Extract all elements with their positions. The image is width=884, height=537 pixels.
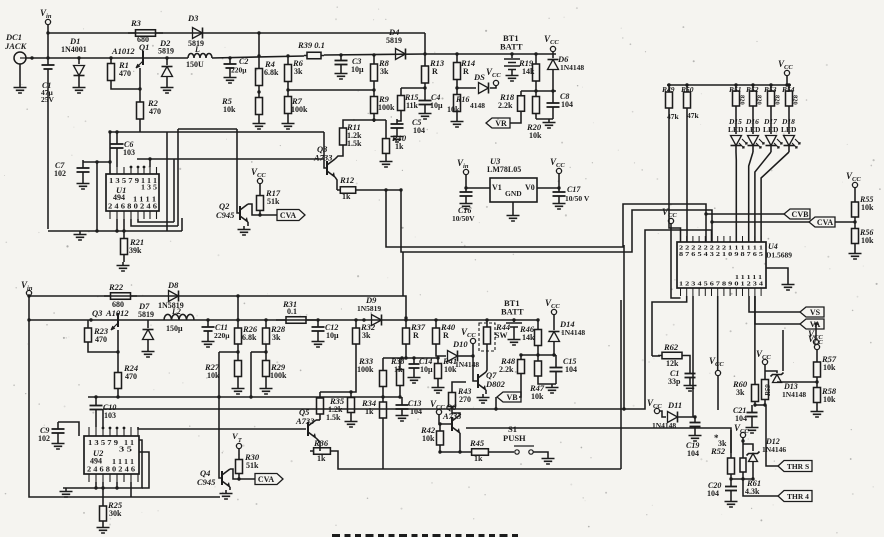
ground (C19) xyxy=(689,432,702,441)
resistor R29 100k xyxy=(265,352,267,385)
svg-text:1.5k: 1.5k xyxy=(326,413,341,422)
capacitor C9 102 xyxy=(58,422,79,436)
resistor R24 470 xyxy=(117,364,119,397)
node Vcc (R61/D12) xyxy=(740,432,745,437)
svg-text:10μ: 10μ xyxy=(326,331,339,340)
svg-text:R36: R36 xyxy=(313,438,329,448)
ground (C4) xyxy=(419,110,432,119)
wire D11 node to U4 pin xyxy=(692,296,694,417)
wire Q1 to R2 node xyxy=(139,68,141,89)
wire R12 to bus B1 (CVB line) xyxy=(359,189,401,191)
svg-text:47k: 47k xyxy=(687,111,700,120)
resistor R16 10k xyxy=(455,86,458,89)
node Vcc (R57) xyxy=(814,344,819,349)
resistor R25 30k xyxy=(102,482,104,503)
svg-text:103: 103 xyxy=(104,411,116,420)
svg-text:R59: R59 xyxy=(764,384,772,397)
svg-text:CVA: CVA xyxy=(817,218,834,227)
svg-text:BATT: BATT xyxy=(501,307,524,317)
wire from VA area down to D13 xyxy=(782,330,784,371)
inductor L1 150U xyxy=(188,54,212,59)
svg-text:220μ: 220μ xyxy=(214,331,230,340)
resistor R14 R xyxy=(455,52,458,55)
ground (R58) xyxy=(811,408,824,417)
svg-text:104: 104 xyxy=(707,489,719,498)
svg-text:2 2 2 2 2 2 2 2 1 1 1 1 1 1: 2 2 2 2 2 2 2 2 1 1 1 1 1 1 xyxy=(679,246,763,252)
resistor R37 R xyxy=(404,318,407,321)
node Vcc (U3 output) xyxy=(556,168,561,173)
svg-text:VR: VR xyxy=(495,119,507,128)
ground (C8/R20) xyxy=(536,118,553,120)
resistor R27 10k xyxy=(237,352,239,385)
wire LED D18 to U4 xyxy=(761,152,789,242)
resistor R32 3k xyxy=(354,318,357,321)
wire CVB branch xyxy=(706,213,784,215)
svg-text:C945: C945 xyxy=(197,477,216,487)
svg-text:V0: V0 xyxy=(525,183,535,192)
node Vcc (D10) xyxy=(470,338,475,343)
svg-text:5819: 5819 xyxy=(386,36,402,45)
svg-text:494: 494 xyxy=(90,457,102,466)
svg-text:R51: R51 xyxy=(728,85,742,94)
capacitor C17 10/50V xyxy=(558,188,560,200)
resistor R50 47k xyxy=(685,83,688,86)
resistor R31 0.1 xyxy=(276,319,316,321)
ground (Q2 emitter) xyxy=(247,222,249,226)
svg-text:VB: VB xyxy=(506,393,518,402)
ground (D2) xyxy=(161,84,174,93)
resistor R52 820 xyxy=(751,83,754,86)
svg-text:10μ: 10μ xyxy=(351,65,364,74)
resistor R15 11k xyxy=(401,87,425,89)
ground (R16) xyxy=(451,118,464,127)
svg-text:PUSH: PUSH xyxy=(503,433,526,443)
ground (Q7 emitter) xyxy=(485,390,487,394)
ground (R29) xyxy=(260,385,273,394)
svg-text:1k: 1k xyxy=(395,142,404,151)
resistor R35 1.2k/1.5k xyxy=(320,391,351,393)
wire top rail Vin to corner x425 xyxy=(48,32,425,34)
resistor R18 2.2k xyxy=(520,91,522,116)
resistor R26 6.8k xyxy=(236,318,239,321)
wire bottom rail2 xyxy=(29,319,538,321)
wire U4 to VS flag xyxy=(749,296,800,312)
U2 pin stubs bottom xyxy=(88,474,90,482)
resistor R23 470 xyxy=(87,320,89,350)
IC U1 494 xyxy=(106,174,159,211)
resistor R48 2.2k xyxy=(520,355,522,378)
svg-text:12k: 12k xyxy=(666,359,679,368)
wire bottom railA xyxy=(29,296,406,318)
svg-text:820: 820 xyxy=(739,95,746,105)
svg-text:104: 104 xyxy=(687,449,699,458)
diode D14 1N4148 with Vcc xyxy=(551,309,556,314)
wire R6/R7 tap to R8/R9 tap xyxy=(288,89,374,91)
ground (C3) xyxy=(335,70,348,79)
svg-text:10k: 10k xyxy=(861,203,874,212)
svg-text:10k: 10k xyxy=(223,105,236,114)
capacitor C16 10/50V xyxy=(465,188,467,200)
svg-text:D10: D10 xyxy=(452,339,468,349)
wire LED D15 to U4 xyxy=(735,152,737,242)
svg-text:150U: 150U xyxy=(186,60,204,69)
resistor R61 4.3k xyxy=(742,451,744,479)
svg-text:1 1 1 1 1: 1 1 1 1 1 xyxy=(735,275,762,281)
resistor R46 14k xyxy=(536,318,539,321)
flag CVA (right) xyxy=(809,217,835,227)
capacitor C7 102 xyxy=(83,161,110,163)
ground (C1) xyxy=(684,382,697,391)
resistor R57 10k xyxy=(816,350,818,358)
svg-text:10k: 10k xyxy=(447,105,460,114)
node Vcc (U4 left) xyxy=(668,218,673,223)
svg-text:10/50V: 10/50V xyxy=(452,214,475,223)
svg-text:4148: 4148 xyxy=(470,101,485,110)
U1 pin stubs bottom xyxy=(109,211,111,219)
wire ground bus under U1 xyxy=(48,230,182,232)
svg-text:R53: R53 xyxy=(763,85,777,94)
resistor R9 100k xyxy=(373,90,375,120)
svg-text:1N4148: 1N4148 xyxy=(561,328,585,337)
svg-text:R62: R62 xyxy=(663,342,679,352)
ground (C13) xyxy=(396,412,409,421)
wire U2 to right buses xyxy=(102,409,104,427)
ground (BT1 bottom) xyxy=(508,336,521,345)
svg-text:A1012: A1012 xyxy=(111,46,135,56)
svg-text:R3: R3 xyxy=(130,18,142,28)
resistor R11 1.2k/1.5k xyxy=(335,151,343,159)
resistor R28 3k xyxy=(264,318,267,321)
svg-text:R: R xyxy=(443,331,449,340)
svg-text:1 3 5: 1 3 5 xyxy=(141,184,158,192)
resistor R30 51k xyxy=(238,449,240,455)
wire R35 to Q5 collector xyxy=(316,419,320,421)
node Vcc (below VA) xyxy=(813,339,818,344)
svg-text:THR S: THR S xyxy=(787,462,809,471)
wire railA to rail2 drop xyxy=(237,296,239,320)
capacitor C20 104 xyxy=(730,479,732,498)
svg-text:10/50 V: 10/50 V xyxy=(565,194,590,203)
svg-text:102: 102 xyxy=(54,169,66,178)
ground (R27) xyxy=(232,385,245,394)
svg-text:R52: R52 xyxy=(710,446,726,456)
svg-text:3k: 3k xyxy=(362,331,371,340)
svg-text:R39 0.1: R39 0.1 xyxy=(297,40,325,50)
svg-text:V1: V1 xyxy=(492,183,502,192)
svg-text:1N4148: 1N4148 xyxy=(782,390,806,399)
svg-text:100k: 100k xyxy=(291,105,308,114)
resistor R35b (1.5k alt) xyxy=(350,392,352,418)
svg-text:4.3k: 4.3k xyxy=(745,487,760,496)
resistor R17 51k xyxy=(259,184,261,192)
wire U1 bottom pin wires xyxy=(116,219,118,231)
node Vin (top input terminal) xyxy=(45,19,50,24)
diode D12 1N4146 xyxy=(743,444,753,451)
wire CVA to R55/R56 junction xyxy=(835,221,855,223)
capacitor C15 104 xyxy=(555,355,557,384)
svg-text:39k: 39k xyxy=(129,246,142,255)
resistor R3 680 (top rail) xyxy=(128,32,163,34)
wire to THR 4 flag xyxy=(743,479,778,496)
svg-text:1N5819: 1N5819 xyxy=(357,304,381,313)
svg-text:103: 103 xyxy=(123,148,135,157)
node Vcc (R55) xyxy=(852,182,857,187)
ground (R35b) xyxy=(345,418,358,427)
ground (S1) xyxy=(533,452,548,455)
capacitor C13 104 xyxy=(401,397,403,402)
ground (R25) xyxy=(97,524,110,533)
ground (C2) xyxy=(224,74,237,83)
capacitor C2 220u xyxy=(228,56,231,59)
wire bus B2 (CVA line) xyxy=(401,190,712,252)
svg-text:104: 104 xyxy=(413,126,425,135)
svg-text:14k: 14k xyxy=(522,333,535,342)
wire LED D17 to U4 xyxy=(755,152,771,242)
caption (partially cropped) xyxy=(332,534,340,537)
wire R2 to Q3 base long run xyxy=(110,131,324,133)
ground (C17) xyxy=(553,200,566,209)
svg-text:10k: 10k xyxy=(422,434,435,443)
resistor R45 1k xyxy=(468,451,492,453)
svg-text:VS: VS xyxy=(810,308,821,317)
svg-text:1k: 1k xyxy=(394,365,403,374)
svg-text:10k: 10k xyxy=(529,131,542,140)
svg-text:CVA: CVA xyxy=(258,475,275,484)
svg-text:D11: D11 xyxy=(667,400,682,410)
svg-text:1 3 5 7 9: 1 3 5 7 9 xyxy=(88,439,119,447)
wire U1 pin1 up to R2 line xyxy=(109,132,111,174)
wire R19/R18/C8 node xyxy=(521,90,556,92)
svg-text:494: 494 xyxy=(113,193,125,202)
wire jack rail xyxy=(26,57,188,59)
svg-text:2.2k: 2.2k xyxy=(498,101,513,110)
svg-text:6.8k: 6.8k xyxy=(242,333,257,342)
resistor R42 10k xyxy=(438,422,441,425)
svg-text:470: 470 xyxy=(119,69,131,78)
svg-text:220μ: 220μ xyxy=(231,66,247,75)
svg-text:R22: R22 xyxy=(108,282,124,292)
wire Q3 to R24 xyxy=(117,330,119,364)
ground (R56) xyxy=(849,250,862,259)
wire R59 node to THR S xyxy=(766,405,778,466)
svg-text:150μ: 150μ xyxy=(166,324,183,333)
svg-text:1N4148: 1N4148 xyxy=(455,360,479,369)
resistor R7 100k xyxy=(287,90,289,120)
U2 pin stubs top xyxy=(88,427,90,436)
U4 pin stubs top xyxy=(680,236,682,242)
node Vcc (Q6) xyxy=(436,409,441,414)
wire U1 pin13 to y159 line xyxy=(149,159,151,167)
svg-text:10μ: 10μ xyxy=(420,365,433,374)
flag VA xyxy=(800,319,824,329)
svg-text:CVB: CVB xyxy=(792,210,810,219)
wire D10 to Q7 base xyxy=(473,356,478,381)
svg-text:10k: 10k xyxy=(531,392,544,401)
svg-text:L: L xyxy=(194,45,200,54)
wire R36 to bottom bus xyxy=(334,451,621,469)
ground (R41) xyxy=(432,384,445,393)
node Vcc (D11) xyxy=(654,408,659,413)
svg-text:820: 820 xyxy=(774,95,781,105)
wire U1 right-side verticals xyxy=(166,132,168,231)
svg-text:104: 104 xyxy=(565,365,577,374)
wire R62 feed from U4 xyxy=(652,296,687,356)
resistor R54 820 xyxy=(787,83,790,86)
wire Vin down left side xyxy=(29,296,220,497)
svg-text:3k: 3k xyxy=(736,388,745,397)
flag CVA (bottom) xyxy=(255,474,283,485)
svg-text:10k: 10k xyxy=(823,395,836,404)
wire Vin junction down to jack rail xyxy=(47,33,49,58)
resistor R33 100k xyxy=(382,358,384,360)
ground (C11) xyxy=(202,338,215,347)
svg-text:JACK: JACK xyxy=(4,41,28,51)
svg-text:104: 104 xyxy=(561,100,573,109)
svg-text:10k: 10k xyxy=(861,236,874,245)
flag THR S xyxy=(778,461,812,472)
resistor R1 470 xyxy=(109,56,112,59)
svg-text:1k: 1k xyxy=(342,192,351,201)
svg-text:D3: D3 xyxy=(187,13,199,23)
svg-text:R16: R16 xyxy=(455,95,469,104)
ground (C9) xyxy=(52,440,65,449)
capacitor C1 47u 25V xyxy=(47,58,49,76)
svg-text:1.5k: 1.5k xyxy=(347,139,362,148)
resistor R40 R xyxy=(434,318,437,321)
svg-text:CVA: CVA xyxy=(280,211,297,220)
svg-text:2 4 6 8 0 2 4 6: 2 4 6 8 0 2 4 6 xyxy=(87,466,136,474)
wire D13 to R57/R58 node xyxy=(777,381,817,383)
node Vcc (mid, U4 pin7) xyxy=(717,296,719,370)
svg-text:LM78L05: LM78L05 xyxy=(487,165,521,174)
node Vin (U3 input terminal) xyxy=(463,169,468,174)
resistor R44 SW (dashed option box) xyxy=(479,323,495,351)
wire jack rail L1 to R39 xyxy=(212,56,304,58)
flag VB xyxy=(497,392,521,402)
svg-text:R12: R12 xyxy=(339,175,355,185)
svg-text:5819: 5819 xyxy=(138,310,154,319)
resistor R36 1k xyxy=(316,438,320,451)
ground (R7) xyxy=(282,120,295,129)
resistor R62 12k xyxy=(652,355,660,357)
wire R9 bottom to R11/R10 xyxy=(373,120,375,122)
svg-text:D8: D8 xyxy=(167,280,179,290)
node Vcc (R59) xyxy=(762,359,767,364)
resistor R47 10k xyxy=(537,355,539,382)
wire U2 right-side loop xyxy=(139,452,149,488)
resistor R49 47k xyxy=(667,83,670,86)
flag VS xyxy=(800,307,824,317)
svg-text:51k: 51k xyxy=(267,197,280,206)
ground (U4 right) xyxy=(766,268,788,281)
svg-text:DS: DS xyxy=(473,72,485,82)
wire LED network rail xyxy=(667,84,791,86)
resistor R19 14k xyxy=(534,52,537,55)
resistor R8 3k xyxy=(372,53,375,56)
ground (C7) xyxy=(77,180,90,189)
wire R23 bottom to R24 node xyxy=(88,350,118,352)
wire R40 to D10 xyxy=(436,352,446,356)
resistor R58 10k xyxy=(816,382,818,408)
wire R49 to U4 xyxy=(669,115,681,242)
IC U4 D1.5689 xyxy=(677,242,766,288)
svg-text:11k: 11k xyxy=(406,101,419,110)
ground (D1) xyxy=(73,84,86,93)
svg-text:2 4 6 8 0 2 4 6: 2 4 6 8 0 2 4 6 xyxy=(108,203,158,211)
ground (C20) xyxy=(725,498,738,507)
ground (R21) xyxy=(117,262,130,271)
flag CVA (top) xyxy=(277,210,305,221)
resistor R21 39k xyxy=(123,219,125,231)
diode D13 1N4148 xyxy=(765,371,777,373)
resistor R13 R xyxy=(424,54,426,95)
node Vin (bottom input terminal) xyxy=(26,290,31,295)
wire R28/R29 tap xyxy=(251,351,266,353)
resistor R34 1k xyxy=(381,395,384,398)
flag CVB xyxy=(784,209,810,219)
capacitor C11 220u xyxy=(206,318,209,321)
ground (C21) xyxy=(746,424,759,433)
svg-text:820: 820 xyxy=(792,95,799,105)
ground (C5) xyxy=(391,133,404,142)
svg-text:C17: C17 xyxy=(567,185,581,194)
ground (D7) xyxy=(142,348,155,357)
wire Q4 collector to CVA flag xyxy=(230,469,255,479)
svg-text:A733: A733 xyxy=(313,153,333,163)
wire C7 node to ground bus xyxy=(96,162,98,231)
wire Q6 emitter to R45 xyxy=(459,433,461,452)
ground (U3 GND pin) xyxy=(512,202,514,212)
svg-text:102: 102 xyxy=(38,434,50,443)
ground (Q4 emitter) xyxy=(229,487,231,490)
capacitor C12 10u xyxy=(316,318,319,321)
svg-text:THR 4: THR 4 xyxy=(787,492,809,501)
svg-text:R49: R49 xyxy=(661,85,675,94)
svg-text:R50: R50 xyxy=(680,85,694,94)
svg-text:6.8k: 6.8k xyxy=(264,68,279,77)
wire Q2 collector to CVA xyxy=(248,204,277,215)
svg-text:1k: 1k xyxy=(317,454,326,463)
svg-text:10k: 10k xyxy=(823,363,836,372)
resistor R59 xyxy=(764,365,766,375)
svg-text:Q3: Q3 xyxy=(92,308,103,318)
resistor R41 10k xyxy=(436,356,439,359)
ground (R5) xyxy=(253,120,266,129)
resistor R12 1k xyxy=(335,177,337,190)
wire rail to R14/BT1 xyxy=(425,53,556,55)
U1 pin stubs top xyxy=(109,167,111,174)
wire node y355 xyxy=(521,354,556,356)
wire sense bus y397 xyxy=(88,396,400,398)
svg-text:1N4146: 1N4146 xyxy=(762,445,786,454)
capacitor C3 10u xyxy=(339,53,342,56)
svg-text:2.2k: 2.2k xyxy=(499,365,514,374)
svg-text:SW: SW xyxy=(495,331,507,340)
svg-text:3 5: 3 5 xyxy=(119,446,133,454)
resistor R20 10k xyxy=(535,91,537,119)
resistor R51 820 xyxy=(734,83,737,86)
wire R39 to D4 rail xyxy=(324,54,425,55)
svg-text:R54: R54 xyxy=(781,85,795,94)
ground (C12) xyxy=(312,338,325,347)
svg-text:GND: GND xyxy=(505,189,522,198)
svg-text:R: R xyxy=(432,67,438,76)
svg-text:51k: 51k xyxy=(246,461,259,470)
wire R26/R27 tap to Q4 base xyxy=(219,351,238,353)
svg-text:R52: R52 xyxy=(745,85,759,94)
resistor R56 10k xyxy=(854,222,856,250)
svg-text:14k: 14k xyxy=(522,67,535,76)
